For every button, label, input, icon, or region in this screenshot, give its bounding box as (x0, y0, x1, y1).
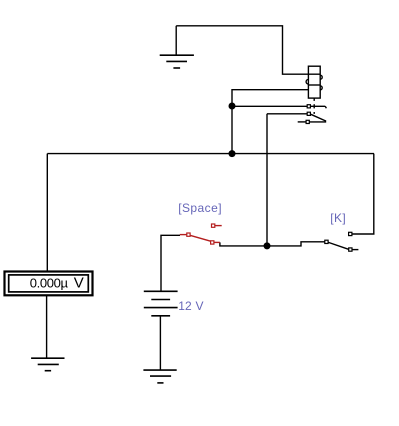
switch S1 pin squares (187, 224, 215, 244)
wire coil lower terminal to node A (232, 90, 308, 106)
wire top horizontal from ground GND1 to relay coil (176, 26, 320, 74)
wire battery to switch S1 (161, 235, 180, 291)
wire voltmeter to ground GND2 (46, 295, 48, 358)
voltmeter U1 inner box (9, 275, 89, 292)
wire long horizontal node B (47, 153, 374, 155)
svg-text:0.000µ: 0.000µ (30, 276, 69, 291)
relay dashed actuator link (313, 98, 315, 101)
node B junction dot (229, 150, 236, 157)
switch S2 lever (328, 242, 348, 249)
wire node A to node B (231, 106, 233, 154)
relay contact NC bent tip (325, 106, 326, 108)
relay coil K1 winding bump right 2 (320, 86, 322, 90)
svg-text:[K]: [K] (330, 211, 346, 225)
relay coil K1 body (308, 66, 320, 98)
switch S2 pin squares (325, 232, 352, 251)
ground GND1 (160, 55, 194, 68)
wire node C to switch S2 (267, 242, 325, 246)
relay coil K1 winding bump left (306, 79, 308, 84)
battery V1 plates (144, 291, 178, 316)
relay contact pin squares (306, 105, 310, 124)
ground GND2 (31, 358, 64, 371)
relay NO contact line right of pin (309, 120, 325, 122)
wire relay common down to node C (266, 114, 268, 246)
ground GND1 stem (175, 26, 177, 55)
svg-text:V: V (74, 275, 84, 292)
wire battery to ground GND3 (159, 316, 161, 370)
node A junction dot (229, 103, 236, 110)
node C junction dot (264, 242, 271, 249)
relay armature lever (311, 114, 326, 121)
switch S2 open stub (352, 249, 358, 251)
relay coil K1 winding bump right 1 (320, 75, 322, 79)
switch S1 [Space] red parts (180, 226, 222, 243)
svg-text:12 V: 12 V (178, 299, 204, 313)
wire relay common to vertical (267, 113, 307, 115)
wire node A to relay NC contact (232, 105, 307, 107)
wire switch S1 to node C (220, 242, 267, 246)
svg-text:[Space]: [Space] (178, 201, 222, 215)
relay NO contact stub (298, 121, 306, 123)
wire left vertical to voltmeter (46, 154, 48, 272)
voltmeter U1 outer box (5, 272, 93, 296)
ground GND3 (143, 370, 176, 383)
wire switch S2 to long wire (352, 154, 374, 234)
relay contact NC line right of pin (310, 105, 325, 107)
relay coil K1 inner line (308, 84, 320, 86)
